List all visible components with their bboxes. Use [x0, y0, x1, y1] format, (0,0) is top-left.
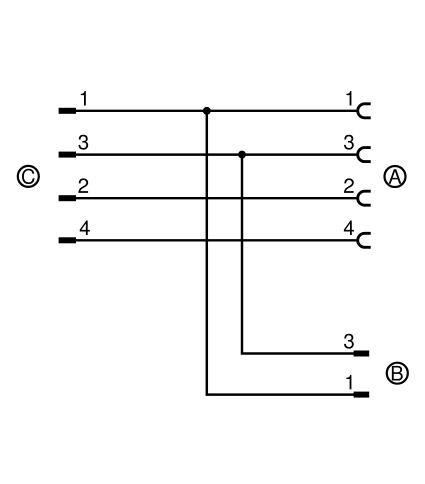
junction J1 on wire 1	[203, 107, 211, 115]
connector C pin 4 terminal	[59, 237, 76, 243]
socket A pin 3	[358, 148, 371, 162]
pin 4 label (C side)	[80, 220, 90, 235]
connector A label (circled A)	[385, 166, 406, 187]
connector B pin 3 terminal	[354, 351, 370, 357]
socket A pin 2	[358, 191, 371, 205]
junction J2 on wire 3	[238, 151, 246, 159]
pin 3 label (C side)	[78, 135, 88, 150]
socket A pin 4	[358, 233, 371, 247]
pin 1 label (C side)	[81, 91, 86, 106]
pin 1 label (A side)	[346, 91, 351, 106]
pin 3 label (B side)	[344, 334, 354, 349]
connector B pin 1 terminal	[354, 392, 370, 398]
connector B label (circled B)	[387, 363, 408, 384]
socket A pin 1	[358, 104, 371, 118]
pin 1 label (B side)	[346, 375, 351, 390]
wire from junction J1 down to B pin 1	[207, 111, 355, 395]
wire C3 to A3	[76, 153, 358, 155]
pin 2 label (C side)	[78, 178, 88, 193]
connector C label (circled C)	[18, 166, 39, 187]
wire C2 to A2	[76, 197, 358, 199]
wire C1 to A1	[76, 110, 358, 112]
connector C pin 1 terminal	[59, 108, 76, 114]
pin 3 label (A side)	[344, 135, 354, 150]
pin 4 label (A side)	[344, 220, 354, 235]
wire from junction J2 down to B pin 3	[242, 155, 355, 354]
wire C4 to A4	[76, 239, 358, 241]
pin 2 label (A side)	[344, 178, 354, 193]
connector C pin 3 terminal	[59, 152, 76, 158]
connector C pin 2 terminal	[59, 195, 76, 201]
